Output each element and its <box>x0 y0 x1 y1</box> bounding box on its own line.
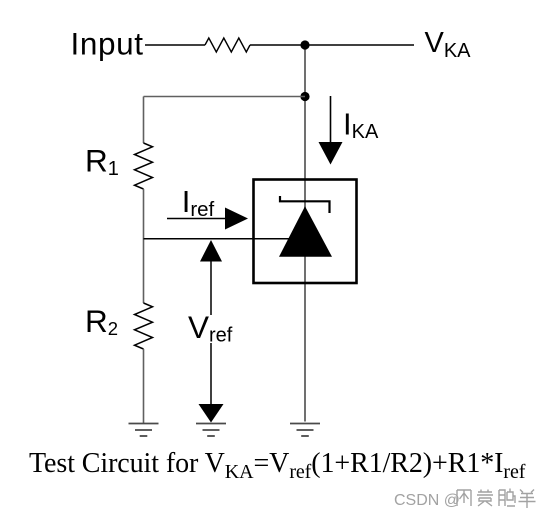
svg-text:CSDN @: CSDN @ <box>394 492 460 509</box>
wire: horizontal from R1 branch to cathode node <box>144 96 306 98</box>
svg-text:Iref: Iref <box>182 184 215 221</box>
cathode bar inside U1 <box>280 196 330 213</box>
current arrow Iref <box>167 208 248 230</box>
resistor R2 <box>135 303 153 349</box>
watermark: CSDN @内蒙肥羊 <box>394 489 536 510</box>
node: junction dot at VKA line <box>300 40 309 49</box>
ground (middle, Vref reference) <box>196 424 226 437</box>
svg-text:R1: R1 <box>85 142 119 179</box>
svg-text:IKA: IKA <box>343 107 379 144</box>
wire: Input to series resistor <box>145 44 205 46</box>
device box U1 (shunt regulator) <box>254 180 357 284</box>
wire: Vref arrow upper shaft <box>210 261 212 315</box>
current arrow IKA <box>319 96 343 165</box>
shunt regulator triangle (U1) <box>279 206 332 256</box>
wire: R2 to ground <box>143 349 145 423</box>
ground (right, below U1 anode) <box>290 424 320 437</box>
wire: cathode vertical (node to device and ground) <box>304 45 306 422</box>
voltage arrow Vref (down head) <box>199 404 224 423</box>
wire: R1 to R2 <box>143 189 145 303</box>
node: junction dot at R1 tap <box>300 92 309 101</box>
wire: top of R1 branch <box>143 97 145 144</box>
svg-text:R2: R2 <box>85 303 118 339</box>
svg-text:Test Circuit for VKA=Vref(1+R1: Test Circuit for VKA=Vref(1+R1/R2)+R1*Ir… <box>29 448 526 483</box>
wire: reference input to U1 <box>144 238 297 240</box>
resistor R1 <box>135 143 153 189</box>
voltage arrow Vref (up head) <box>200 240 222 262</box>
ground (left, below R2) <box>129 424 159 437</box>
resistor (series input resistor, unlabeled) <box>205 38 250 52</box>
wire: resistor to VKA terminal <box>250 44 414 46</box>
svg-text:Input: Input <box>71 26 144 62</box>
wire: Vref arrow lower shaft <box>210 343 212 404</box>
svg-text:VKA: VKA <box>425 27 472 62</box>
